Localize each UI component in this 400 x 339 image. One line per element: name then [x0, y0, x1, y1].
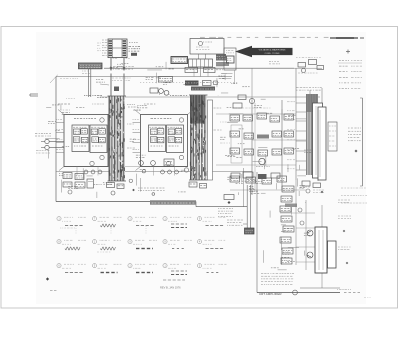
svg-text:VOLTAGES & WAVEFORMS: VOLTAGES & WAVEFORMS [259, 49, 286, 52]
svg-text:COND. IT IONS: COND. IT IONS [265, 53, 280, 55]
svg-text:REV B, JAN 1976: REV B, JAN 1976 [160, 286, 181, 290]
svg-text:CRT AMPLIFIER: CRT AMPLIFIER [259, 292, 282, 296]
